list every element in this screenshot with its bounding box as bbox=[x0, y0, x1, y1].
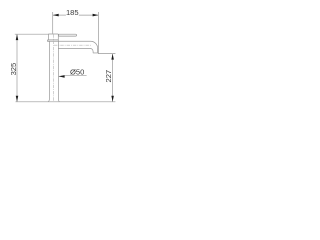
dimension 325 bottom arrow bbox=[16, 96, 19, 102]
svg-text:227: 227 bbox=[104, 70, 113, 83]
dimension 227 bottom arrow bbox=[111, 96, 114, 102]
dimension 185 line right segment bbox=[79, 14, 99, 16]
extension line spout outlet level bbox=[98, 53, 116, 55]
spout inner edge bbox=[58, 48, 93, 52]
dimension 185 right arrow bbox=[93, 14, 99, 17]
extension line top of faucet bbox=[15, 33, 49, 35]
dimension 227 top arrow bbox=[111, 54, 114, 60]
faucet head section (handle housing) bbox=[48, 34, 58, 41]
faucet body outline bbox=[49, 41, 60, 101]
handle lever bbox=[58, 34, 76, 36]
body centerline bbox=[53, 34, 55, 101]
leader line for diameter label bbox=[59, 75, 87, 78]
spout centerline bbox=[54, 44, 91, 46]
extension line right (spout outlet) bbox=[97, 12, 99, 53]
dimension 325 top arrow bbox=[16, 34, 19, 40]
spout outlet bottom bbox=[93, 52, 98, 54]
svg-text:325: 325 bbox=[9, 63, 18, 76]
spout outer edge bbox=[48, 41, 98, 53]
diameter arrow bbox=[59, 75, 65, 78]
dimension 185 line left segment bbox=[53, 14, 66, 16]
dimension 227 line bbox=[112, 54, 114, 102]
counter baseline bbox=[16, 101, 116, 103]
cartridge ring joint bbox=[48, 40, 59, 41]
dimension 185 left arrow bbox=[53, 14, 59, 17]
svg-text:Ø50: Ø50 bbox=[70, 68, 84, 77]
svg-text:185: 185 bbox=[66, 8, 79, 17]
dimension 325 line bbox=[16, 34, 18, 101]
extension line left (handle axis) bbox=[52, 12, 54, 34]
